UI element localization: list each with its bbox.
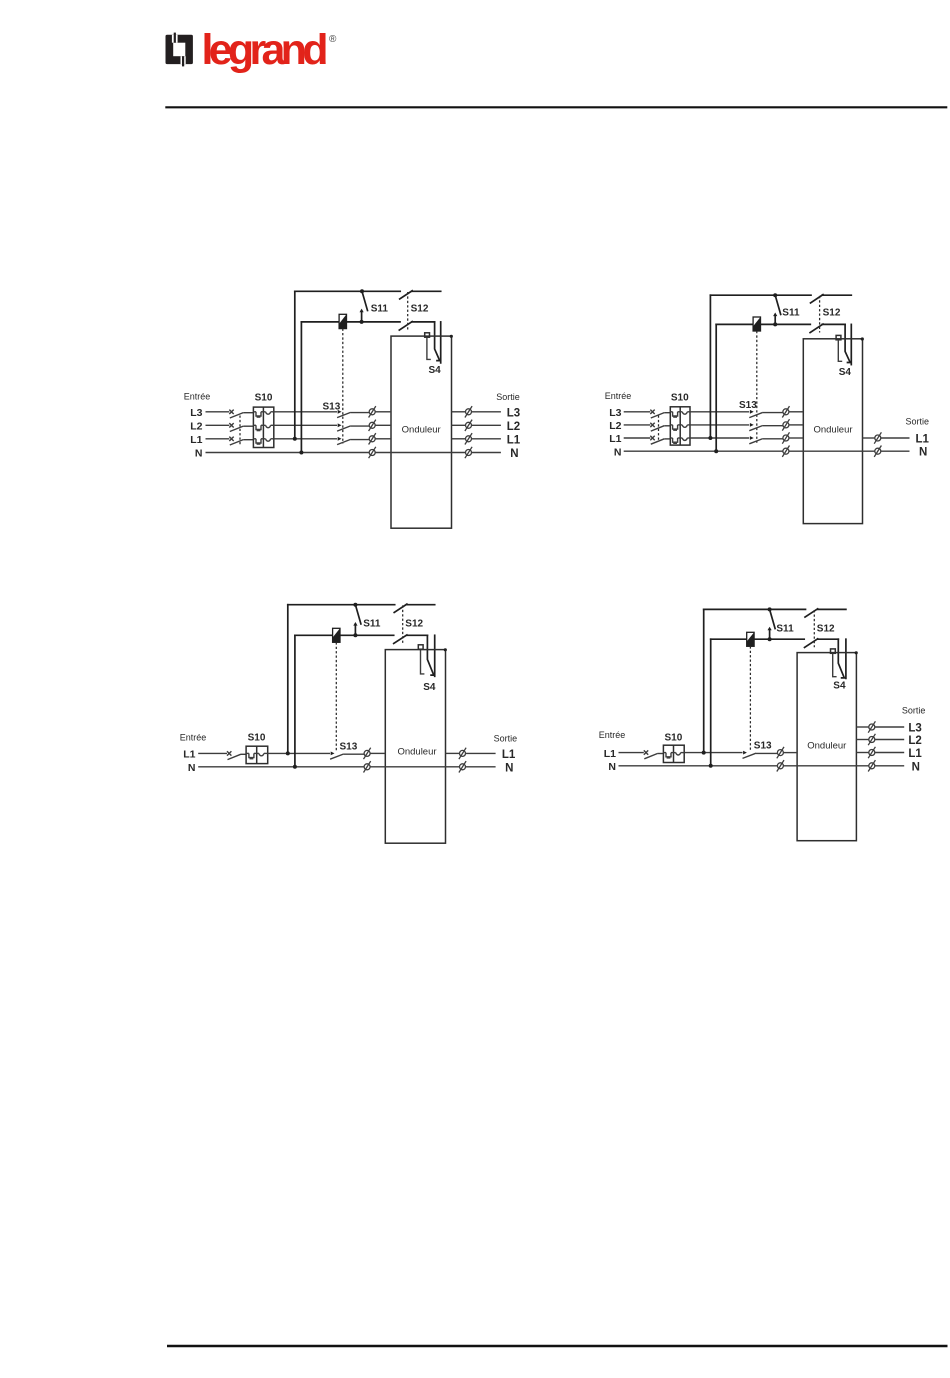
diagram 1 lower transfer bus wire middle segment (347, 321, 401, 323)
diagram 2 wire L1 inverter output (863, 437, 875, 439)
switch S13 pole L3 (diagram 2) (750, 410, 754, 414)
diagram 1 upper bypass bus wire (295, 290, 400, 292)
diagram 1 wire L1 input (206, 438, 230, 440)
diagram 1 wire L1 output (472, 438, 501, 440)
static switch fuse component (diagram 2) (753, 317, 760, 331)
diagram 4 breaker S10 entry switch (644, 750, 648, 754)
svg-text:Entrée: Entrée (184, 392, 211, 402)
svg-text:legrand: legrand (202, 26, 328, 74)
svg-text:Sortie: Sortie (494, 733, 518, 743)
diagram 4 lower transfer bus wire right segment (818, 638, 839, 640)
svg-text:S10: S10 (665, 732, 683, 743)
S10 contact wave (diagram 3) (257, 752, 259, 754)
switch S4 (diagram 1) wire from bypass bus (440, 322, 442, 363)
diagram 1 wire L2 input (206, 424, 230, 426)
diagram 1 junction N transfer tap (299, 451, 303, 455)
S10 contact wave pole L3 (diagram 2) (680, 411, 682, 413)
switch S12 (diagram 3) coupling link (402, 605, 404, 643)
switch S12 (diagram 2) coupling link (819, 296, 821, 333)
S10 fuse cartridge pole L1 (diagram 2) (670, 437, 672, 439)
S10 contact wave (diagram 4) (674, 752, 676, 754)
diagram 4 wire N through inverter (783, 765, 868, 767)
diagram 3 junction box corner (444, 648, 447, 651)
diagram 3 wire N output (466, 766, 496, 768)
diagram 2 wire L1 input (624, 437, 651, 439)
disconnect terminal output L1 (diagram 1) (465, 433, 472, 444)
disconnect terminal input N (diagram 3) (364, 761, 371, 772)
diagram 2 breaker S10 pole L3 entry switch (650, 410, 654, 414)
diagram 3 lower transfer bus wire (295, 634, 333, 636)
diagram 4 wire L1 output (875, 752, 904, 754)
svg-text:N: N (919, 447, 927, 459)
switch S11 (diagram 1) blade (362, 291, 368, 310)
inverter unit Onduleur (diagram 2) enclosure (803, 339, 862, 524)
svg-text:S11: S11 (776, 623, 794, 634)
svg-text:L2: L2 (609, 420, 621, 432)
svg-text:N: N (912, 761, 920, 773)
diagram 2 wire L2 from S10 to S13 (690, 424, 749, 426)
diagram 4 wire L1 input (619, 752, 644, 754)
disconnect terminal input L3 (diagram 2) (782, 406, 789, 417)
S10 contact wave pole L1 (diagram 1) (263, 438, 265, 440)
S10 fuse cartridge (diagram 3) (246, 752, 249, 754)
S10 fuse cartridge (diagram 4) (663, 752, 666, 754)
diagram 4 junction S11 on lower bus (768, 637, 772, 641)
switch S11 (diagram 1) fixed contact stub (361, 311, 363, 322)
svg-text:L1: L1 (609, 433, 621, 445)
diagram 2 junction S11 on lower bus (773, 322, 777, 326)
switch S12 (diagram 1) upper blade (400, 291, 413, 299)
svg-text:L1: L1 (916, 434, 930, 446)
inverter unit Onduleur (diagram 3) enclosure (385, 650, 445, 844)
disconnect terminal input L2 (diagram 2) (782, 419, 789, 430)
diagram 3 lower transfer bus wire middle segment (340, 634, 394, 636)
svg-text:Entrée: Entrée (180, 733, 207, 743)
svg-text:S4: S4 (423, 682, 436, 693)
diagram 2 wire L1 from S10 to S13 (690, 437, 749, 439)
diagram 4 wire L1 from S10 to S13 (684, 752, 742, 754)
switch S11 (diagram 3) fixed contact stub (354, 624, 356, 635)
diagram 4 wire L1 to inverter (783, 752, 797, 754)
diagram 3 junction S11 on lower bus (353, 633, 357, 637)
svg-text:L1: L1 (604, 748, 616, 760)
diagram 1 junction box corner (450, 335, 453, 338)
switch S12 (diagram 4) lower blade (805, 639, 818, 648)
switch S12 (diagram 2) lower blade (810, 324, 823, 333)
mechanical link from static switch to S13 (diagram 3) (335, 642, 337, 751)
inverter unit Onduleur (diagram 4) enclosure (797, 653, 856, 841)
diagram 2 lower transfer bus wire middle segment (761, 323, 811, 325)
svg-text:L1: L1 (502, 749, 516, 761)
diagram 1 wire L1 inverter output (452, 438, 466, 440)
switch S4 (diagram 2) latch hook (838, 340, 842, 362)
diagram 4 upper bypass bus wire (704, 608, 806, 610)
svg-text:S10: S10 (671, 392, 689, 403)
mechanical link from static switch to S13 (diagram 4) (749, 646, 751, 750)
disconnect terminal output L3 (diagram 4) (868, 721, 875, 732)
inverter unit Onduleur (diagram 1) enclosure (391, 336, 452, 528)
svg-text:S12: S12 (817, 623, 835, 634)
diagram 3 wire L1 inverter output (446, 752, 460, 754)
switch S12 (diagram 3) upper blade (394, 604, 407, 612)
S10 contact wave pole L3 (diagram 1) (263, 411, 265, 413)
diagram 1 wire L3 from S10 to S13 (274, 411, 337, 413)
S10 fuse cartridge pole L2 (diagram 1) (253, 424, 256, 426)
svg-text:Onduleur: Onduleur (402, 424, 441, 435)
diagram 3 wire L1 from S10 to S13 (268, 752, 330, 754)
svg-text:S12: S12 (823, 307, 841, 318)
switch S4 (diagram 1) latch hook (427, 337, 431, 359)
diagram 4 wire L2 inverter output (856, 739, 868, 741)
switch S12 (diagram 1) lower blade (399, 322, 412, 331)
switch S4 (diagram 3) wire from bypass bus (434, 635, 436, 676)
svg-text:L3: L3 (609, 407, 621, 419)
disconnect terminal output L3 (diagram 1) (465, 406, 472, 417)
switch S11 (diagram 2) fixed contact stub (774, 315, 776, 325)
diagram 4 wire L2 output (875, 739, 904, 741)
diagram 1 wire L2 inverter output (452, 424, 466, 426)
diagram 1 wire L3 to inverter (375, 411, 391, 413)
switch S4 (diagram 4) latch hook (833, 653, 837, 676)
diagram 1 bypass tap vertical wire (L1 to upper bus) (294, 291, 296, 439)
svg-text:S4: S4 (833, 680, 846, 691)
svg-text:S13: S13 (754, 741, 772, 752)
svg-text:L1: L1 (183, 749, 195, 761)
switch S11 (diagram 2) blade (775, 295, 781, 314)
disconnect terminal output L1 (diagram 2) (874, 432, 881, 443)
svg-text:N: N (614, 446, 622, 458)
diagram 3 upper bypass bus wire (288, 604, 395, 606)
switch S11 (diagram 4) blade (770, 609, 776, 628)
diagram 1 wire L2 from S10 to S13 (274, 424, 337, 426)
diagram 4 junction L1 bypass tap (702, 751, 706, 755)
diagram 3 junction L1 bypass tap (286, 751, 290, 755)
svg-text:L2: L2 (908, 735, 921, 747)
diagram 1 S10 entry switch coupling link (239, 416, 241, 445)
diagram 2 lower transfer bus wire right segment (822, 323, 845, 325)
diagram 4 wire L1 inverter output (856, 752, 868, 754)
diagram 2 wire L2 input (624, 424, 651, 426)
diagram 2 wire L3 to inverter (789, 411, 803, 413)
svg-text:®: ® (329, 34, 337, 45)
switch-fuse S10 (diagram 4) enclosure (663, 745, 684, 762)
diagram 3 wire L1 to inverter (370, 752, 385, 754)
switch S4 (diagram 4) blade from transfer bus (838, 639, 844, 678)
static switch fuse component (diagram 1) (339, 314, 346, 328)
S10 fuse cartridge pole L2 (diagram 2) (670, 424, 672, 426)
switch S4 (diagram 3) fixed contact terminal (418, 645, 423, 649)
svg-text:Sortie: Sortie (906, 416, 930, 426)
S10 fuse cartridge pole L1 (diagram 1) (253, 438, 256, 440)
diagram 3 breaker S10 entry switch (227, 751, 231, 755)
footer rule (167, 1345, 948, 1348)
diagram 1 junction L1 bypass tap (293, 437, 297, 441)
switch S12 (diagram 1) coupling link (407, 292, 409, 330)
switch S11 (diagram 1) pivot junction (360, 289, 364, 293)
switch S12 (diagram 3) lower blade (394, 635, 407, 644)
disconnect terminal input L2 (diagram 1) (369, 420, 376, 431)
disconnect terminal output L2 (diagram 1) (465, 420, 472, 431)
switch S11 (diagram 4) pivot junction (768, 607, 772, 611)
switch S11 (diagram 4) fixed contact stub (769, 629, 771, 639)
switch S13 pole L1 (diagram 2) (750, 436, 754, 440)
svg-text:S12: S12 (411, 303, 429, 314)
switch S4 (diagram 3) latch hook (421, 649, 425, 674)
svg-text:L1: L1 (190, 434, 202, 446)
disconnect terminal input N (diagram 1) (369, 447, 376, 458)
svg-text:S4: S4 (839, 367, 852, 378)
diagram 2 wire L3 input (624, 411, 651, 413)
disconnect terminal output L1 (diagram 3) (459, 748, 466, 759)
switch S13 (diagram 4) (743, 751, 747, 755)
mechanical link from static switch to S13 (diagram 1) (342, 329, 344, 444)
diagram 1 breaker S10 pole L1 entry switch (229, 437, 233, 441)
svg-text:S12: S12 (405, 619, 423, 630)
svg-text:S13: S13 (340, 742, 358, 753)
svg-text:Entrée: Entrée (599, 730, 626, 740)
svg-text:Entrée: Entrée (605, 391, 632, 401)
switch S12 (diagram 4) upper blade (805, 609, 818, 617)
svg-text:N: N (195, 448, 203, 460)
diagram 4 lower transfer bus wire middle segment (754, 638, 804, 640)
diagram 2 wire N input to disconnect (624, 450, 783, 452)
diagram 4 bypass tap vertical wire (L1 to upper bus) (703, 609, 705, 752)
switch S4 (diagram 1) fixed contact terminal (425, 333, 430, 337)
diagram 1 wire N through inverter (375, 452, 465, 454)
diagram 1 lower transfer bus wire right segment (412, 321, 435, 323)
diagram 3 transfer tap vertical wire (N to lower bus) (294, 635, 296, 767)
svg-text:S11: S11 (371, 303, 389, 314)
Legrand logo icon (black square switch motif) (166, 33, 193, 67)
diagram 3 lower transfer bus wire right segment (407, 634, 428, 636)
switch S4 (diagram 3) blade from transfer bus (427, 635, 434, 675)
switch S12 (diagram 4) coupling link (813, 610, 815, 647)
switch S4 (diagram 2) fixed contact terminal (836, 335, 841, 339)
diagram 1 wire L2 to inverter (375, 424, 391, 426)
svg-text:S13: S13 (739, 400, 757, 411)
switch S11 (diagram 3) blade (355, 605, 361, 624)
disconnect terminal input L1 (diagram 2) (782, 432, 789, 443)
diagram 2 lower transfer bus wire (716, 323, 753, 325)
diagram 2 wire L1 output (881, 437, 910, 439)
diagram 2 breaker S10 pole L2 entry switch (650, 423, 654, 427)
switch S13 (diagram 3) (331, 752, 335, 756)
switch S13 pole L3 (diagram 1) (338, 410, 342, 414)
svg-text:Sortie: Sortie (496, 392, 520, 402)
disconnect terminal output N (diagram 3) (459, 761, 466, 772)
S10 contact wave pole L1 (diagram 2) (680, 437, 682, 439)
switch S4 (diagram 2) wire from bypass bus (850, 324, 852, 364)
disconnect terminal output N (diagram 4) (868, 760, 875, 771)
switch S12 (diagram 2) upper blade (811, 295, 824, 303)
diagram 1 wire L3 output (472, 411, 501, 413)
switch S4 (diagram 1) blade from transfer bus (435, 322, 440, 361)
diagram 3 bypass tap vertical wire (L1 to upper bus) (287, 605, 289, 754)
S10 fuse cartridge pole L3 (diagram 1) (253, 411, 256, 413)
diagram 2 upper bypass bus wire (710, 294, 811, 296)
svg-text:L2: L2 (507, 421, 520, 433)
diagram 2 wire L2 to inverter (789, 424, 803, 426)
static switch fuse component (diagram 4) (747, 632, 754, 646)
S10 contact wave pole L2 (diagram 2) (680, 424, 682, 426)
diagram 4 wire L3 output (875, 726, 904, 728)
switch S4 (diagram 4) wire from bypass bus (845, 639, 847, 678)
diagram 1 wire L3 input (206, 411, 230, 413)
svg-text:N: N (608, 761, 616, 773)
disconnect terminal output L1 (diagram 4) (868, 747, 875, 758)
disconnect terminal output N (diagram 2) (874, 446, 881, 457)
svg-text:L2: L2 (190, 421, 202, 433)
diagram 4 lower transfer bus wire (711, 638, 747, 640)
diagram 1 lower transfer bus wire (301, 321, 338, 323)
diagram 1 wire N output (472, 452, 501, 454)
svg-text:S10: S10 (248, 733, 266, 744)
diagram 2 junction L1 bypass tap (708, 436, 712, 440)
svg-text:L1: L1 (507, 434, 521, 446)
diagram 4 junction N transfer tap (709, 764, 713, 768)
diagram 4 wire N input to disconnect (619, 765, 778, 767)
diagram 3 wire N input to disconnect (198, 766, 364, 768)
diagram 2 wire N output (881, 450, 910, 452)
static switch fuse component (diagram 3) (333, 628, 340, 642)
diagram 4 wire N output (875, 765, 904, 767)
svg-text:L1: L1 (908, 748, 922, 760)
diagram 1 wire N input to disconnect (206, 452, 370, 454)
diagram 2 transfer tap vertical wire (N to lower bus) (715, 324, 717, 451)
svg-text:Onduleur: Onduleur (397, 746, 436, 757)
svg-text:S10: S10 (255, 392, 273, 403)
diagram 1 breaker S10 pole L3 entry switch (229, 410, 233, 414)
S10 fuse cartridge pole L3 (diagram 2) (670, 411, 672, 413)
diagram 1 wire L1 from S10 to S13 (274, 438, 337, 440)
disconnect terminal input L1 (diagram 3) (364, 748, 371, 759)
diagram 3 upper bypass bus wire right segment (407, 604, 435, 606)
diagram 2 S10 entry switch coupling link (658, 416, 660, 442)
switch S11 (diagram 2) pivot junction (773, 293, 777, 297)
diagram 2 wire L3 from S10 to S13 (690, 411, 749, 413)
diagram 3 junction N transfer tap (293, 765, 297, 769)
diagram 1 wire L2 output (472, 424, 501, 426)
diagram 1 transfer tap vertical wire (N to lower bus) (300, 322, 302, 453)
switch S11 (diagram 3) pivot junction (353, 603, 357, 607)
svg-text:N: N (510, 448, 518, 460)
switch S13 pole L2 (diagram 2) (750, 423, 754, 427)
svg-text:N: N (188, 762, 196, 774)
switch S13 pole L1 (diagram 1) (338, 437, 342, 441)
diagram 1 breaker S10 pole L2 entry switch (229, 423, 233, 427)
diagram 4 junction box corner (855, 651, 858, 654)
diagram 2 junction box corner (861, 337, 864, 340)
switch S13 pole L2 (diagram 1) (338, 423, 342, 427)
svg-text:Sortie: Sortie (902, 706, 926, 716)
svg-text:Onduleur: Onduleur (807, 740, 846, 751)
diagram 2 wire L1 to inverter (789, 437, 803, 439)
diagram 3 wire N through inverter (370, 766, 459, 768)
S10 contact wave pole L2 (diagram 1) (263, 424, 265, 426)
diagram 1 upper bypass bus wire right segment (412, 290, 441, 292)
svg-text:L3: L3 (190, 407, 202, 419)
diagram 2 junction N transfer tap (714, 449, 718, 453)
switch-fuse S10 (diagram 3) enclosure (246, 746, 268, 763)
disconnect terminal input L1 (diagram 1) (369, 433, 376, 444)
diagram 3 wire L1 output (466, 752, 496, 754)
switch-fuse S10 (diagram 2) enclosure (670, 407, 690, 445)
disconnect terminal output L2 (diagram 4) (868, 734, 875, 745)
diagram 2 wire N through inverter (789, 450, 875, 452)
diagram 1 wire L1 to inverter (375, 438, 391, 440)
switch S4 (diagram 4) fixed contact terminal (831, 649, 836, 653)
mechanical link from static switch to S13 (diagram 2) (756, 331, 758, 443)
disconnect terminal input L1 (diagram 4) (777, 747, 784, 758)
diagram 1 wire L3 inverter output (452, 411, 466, 413)
header rule (165, 106, 947, 108)
diagram 2 upper bypass bus wire right segment (822, 294, 851, 296)
diagram 1 junction S11 on lower bus (360, 320, 364, 324)
diagram 2 bypass tap vertical wire (L1 to upper bus) (709, 295, 711, 438)
svg-text:S11: S11 (782, 307, 800, 318)
disconnect terminal input L3 (diagram 1) (369, 406, 376, 417)
svg-text:S11: S11 (363, 619, 381, 630)
disconnect terminal input N (diagram 4) (777, 760, 784, 771)
switch-fuse S10 (diagram 1) enclosure (253, 407, 273, 447)
svg-text:L3: L3 (908, 723, 921, 735)
svg-text:S4: S4 (429, 365, 442, 376)
diagram 3 wire L1 input (198, 752, 227, 754)
disconnect terminal output N (diagram 1) (465, 447, 472, 458)
disconnect terminal input N (diagram 2) (782, 446, 789, 457)
switch S4 (diagram 2) blade from transfer bus (845, 324, 850, 362)
svg-text:L3: L3 (507, 407, 520, 419)
svg-text:N: N (505, 762, 513, 774)
diagram 4 transfer tap vertical wire (N to lower bus) (710, 639, 712, 766)
diagram 4 upper bypass bus wire right segment (818, 608, 846, 610)
diagram 4 wire L3 inverter output (856, 726, 868, 728)
diagram 2 breaker S10 pole L1 entry switch (650, 436, 654, 440)
svg-text:Onduleur: Onduleur (813, 424, 852, 435)
